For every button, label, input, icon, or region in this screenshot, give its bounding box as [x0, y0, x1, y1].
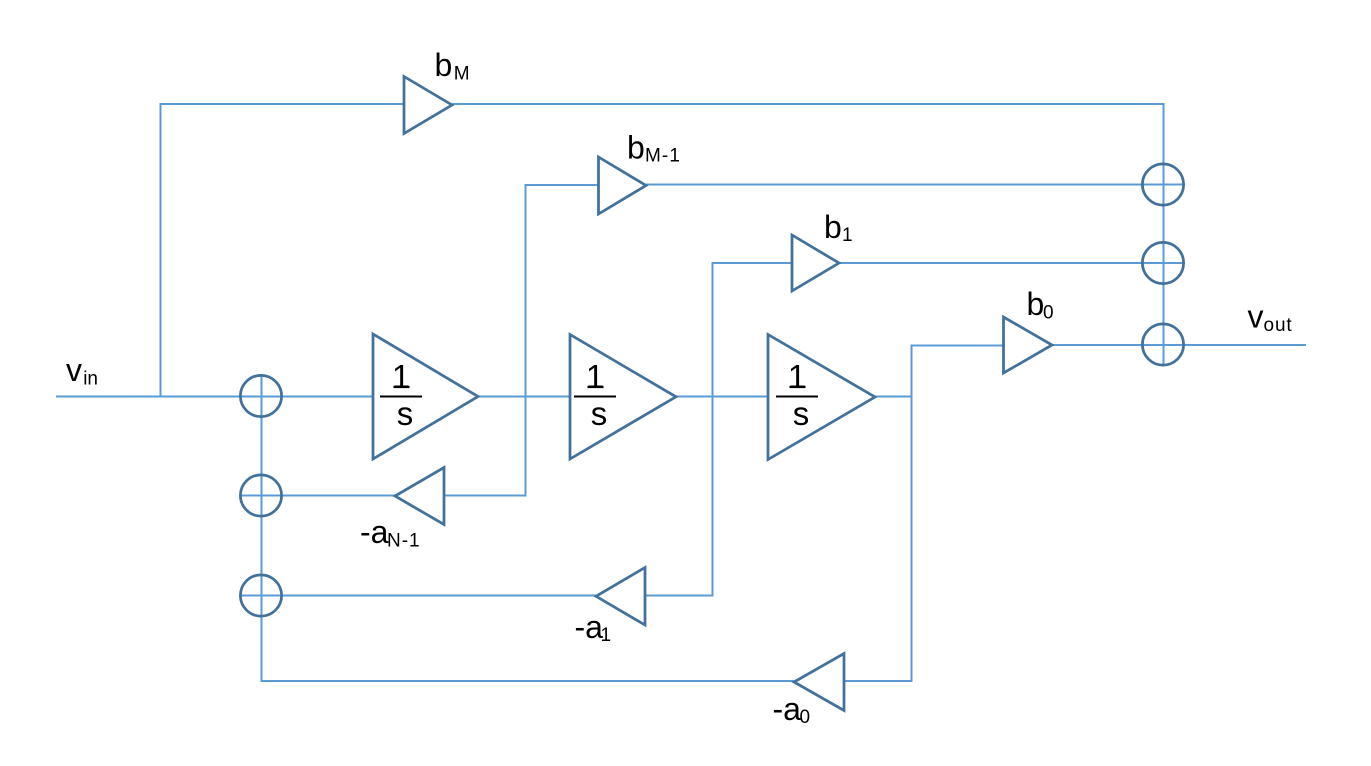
svg-text:1: 1 [788, 358, 806, 395]
svg-text:1: 1 [586, 358, 604, 395]
svg-text:s: s [591, 395, 608, 432]
svg-text:1: 1 [392, 358, 410, 395]
svg-text:s: s [397, 395, 414, 432]
svg-text:s: s [793, 395, 810, 432]
